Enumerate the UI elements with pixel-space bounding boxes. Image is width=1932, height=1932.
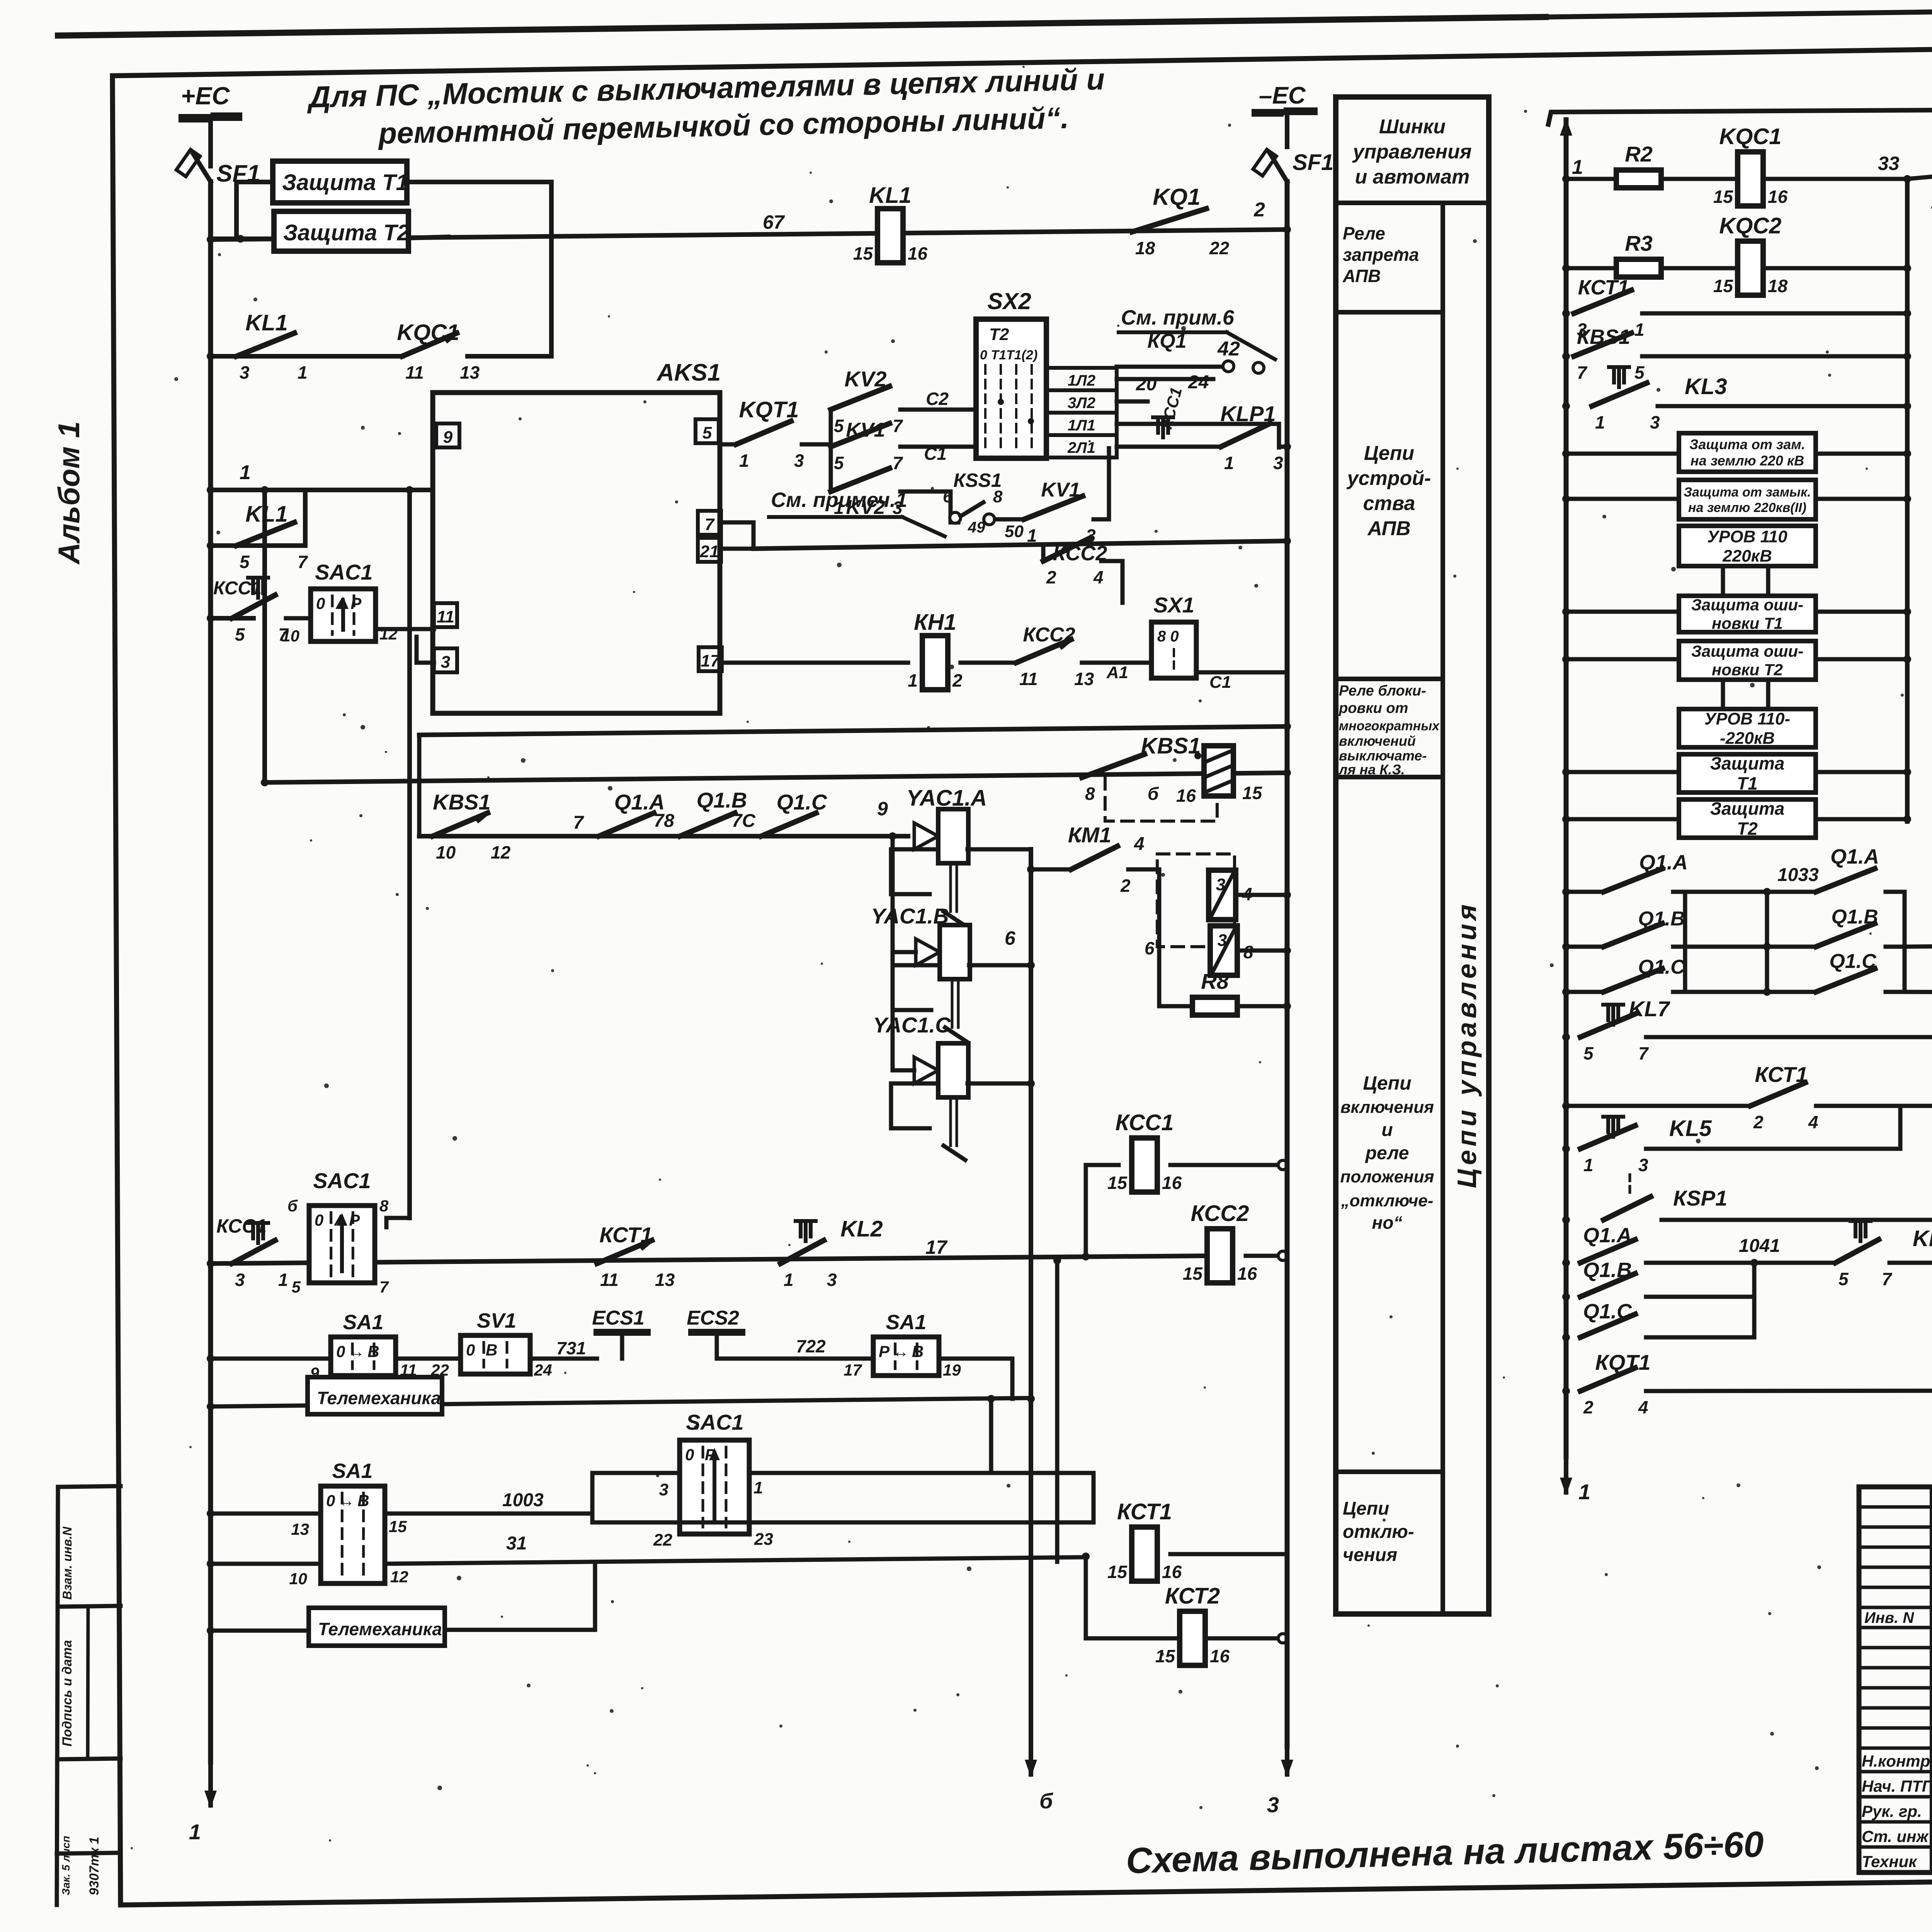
slashed rect KLP1 a: [1209, 870, 1236, 920]
svg-text:4: 4: [1808, 1112, 1818, 1132]
svg-text:16: 16: [1237, 1264, 1257, 1284]
switch SAC1 no1: [311, 589, 376, 641]
row SA1 SV1 ECS: [212, 1357, 331, 1361]
svg-text:и автомат: и автомат: [1355, 166, 1470, 188]
svg-text:22: 22: [1209, 238, 1230, 258]
svg-text:Защита Т2: Защита Т2: [283, 220, 410, 245]
svg-text:SA1: SA1: [343, 1311, 383, 1334]
svg-text:SAC1: SAC1: [315, 560, 372, 584]
sub-bus x4936: [1905, 179, 1910, 821]
svg-text:22: 22: [653, 1531, 672, 1549]
svg-text:7: 7: [893, 453, 903, 473]
svg-text:R3: R3: [1625, 231, 1653, 255]
svg-text:КСТ1: КСТ1: [1117, 1499, 1172, 1524]
svg-text:R8: R8: [1201, 969, 1229, 993]
svg-text:SX1: SX1: [1153, 593, 1194, 617]
svg-text:16: 16: [1162, 1562, 1182, 1582]
cell Cepi vklyucheniya: [1336, 1469, 1443, 1474]
svg-text:Q1.A: Q1.A: [1583, 1224, 1632, 1247]
svg-text:запрета: запрета: [1343, 245, 1419, 265]
svg-text:15: 15: [1713, 187, 1734, 207]
row R2 KQC1: [1562, 175, 1570, 183]
svg-text:0 Р: 0 Р: [685, 1446, 719, 1464]
svg-text:19: 19: [943, 1361, 961, 1379]
row KL5 contact 2973: [1562, 1145, 1570, 1153]
svg-text:Телемеханика: Телемеханика: [318, 1619, 442, 1639]
svg-text:КСТ2: КСТ2: [1165, 1583, 1220, 1609]
svg-text:10: 10: [436, 842, 456, 862]
switch SA1 no3 right: [873, 1337, 939, 1376]
svg-text:Q1.A: Q1.A: [1830, 845, 1879, 868]
svg-text:1: 1: [1224, 453, 1234, 473]
relay coil KH1 row: [722, 661, 908, 665]
svg-text:КQТ1: КQТ1: [1595, 1350, 1650, 1374]
contact KCC1 T row A: [232, 1240, 275, 1264]
svg-text:17: 17: [925, 1236, 948, 1258]
contact KCC1 small: [1153, 415, 1173, 419]
svg-text:SX2: SX2: [987, 288, 1031, 314]
svg-text:5: 5: [292, 1278, 301, 1296]
svg-text:3: 3: [235, 1270, 245, 1290]
svg-text:KL1: KL1: [245, 310, 288, 335]
wire YAC feeder vertical: [891, 836, 895, 1070]
row Q1C 2567: [1562, 988, 1570, 996]
wires SX2 outputs: [1117, 377, 1213, 381]
contact KM1: [1071, 846, 1117, 869]
svg-text:KV1: KV1: [846, 419, 885, 441]
wire KL1 row: [212, 354, 402, 359]
svg-text:6: 6: [1145, 938, 1155, 958]
wire AKS1 pin3 elbow: [417, 637, 434, 663]
relay coil KCT2: [1086, 1556, 1178, 1638]
page scan top edge: [58, 17, 1546, 36]
svg-text:отклю-: отклю-: [1343, 1522, 1414, 1542]
SX2 output boxes: [1046, 368, 1117, 390]
svg-text:15: 15: [853, 243, 874, 264]
title block small rows: [1859, 1505, 1932, 1509]
row KL7 contact 2684: [1562, 1033, 1570, 1041]
svg-text:0 Т1Т1(2): 0 Т1Т1(2): [980, 348, 1037, 362]
relay coil KQC1: [1738, 152, 1763, 206]
key ECS1: [597, 1329, 647, 1336]
Q1 group verticals: [1683, 892, 1687, 992]
svg-text:KBS1: KBS1: [1141, 733, 1201, 759]
svg-text:Подпись и дата: Подпись и дата: [60, 1640, 75, 1747]
svg-text:1: 1: [298, 362, 308, 383]
svg-text:Защита: Защита: [1710, 753, 1785, 774]
svg-text:KQC1: KQC1: [1719, 124, 1781, 149]
svg-text:42: 42: [1217, 338, 1240, 360]
middle column header: [1336, 201, 1489, 205]
box Защита Т2: [274, 211, 408, 251]
resistor R8: [1192, 997, 1237, 1015]
middle column outer box: [1336, 97, 1489, 1614]
svg-text:16: 16: [1162, 1173, 1182, 1193]
svg-text:1: 1: [753, 1478, 763, 1497]
svg-text:См. прим.6: См. прим.6: [1121, 306, 1235, 329]
contact KCC2 11-13: [1016, 639, 1071, 663]
svg-text:5: 5: [1583, 1043, 1594, 1063]
svg-text:Q1.C: Q1.C: [1638, 956, 1685, 978]
svg-text:КН1: КН1: [914, 610, 956, 635]
KV contact network: [829, 410, 833, 492]
svg-text:Телемеханика: Телемеханика: [317, 1388, 441, 1408]
svg-text:б: б: [1148, 784, 1159, 804]
svg-text:Цепи: Цепи: [1343, 1498, 1389, 1519]
protection box Защита оши-: [1679, 641, 1816, 680]
svg-text:7: 7: [893, 416, 903, 436]
protection box УРОВ 110: [1679, 526, 1816, 566]
svg-text:23: 23: [754, 1530, 773, 1549]
svg-text:SF1: SF1: [1293, 150, 1333, 175]
relay coil KCT1 bottom: [1132, 1527, 1157, 1581]
svg-text:3Л2: 3Л2: [1068, 395, 1095, 412]
svg-text:13: 13: [655, 1270, 675, 1290]
ground wire 67 line: [211, 230, 1287, 240]
row telemech2: [212, 1629, 309, 1633]
svg-text:18: 18: [1768, 276, 1788, 296]
svg-text:KQC1: KQC1: [397, 320, 459, 345]
block AKS1: [433, 393, 720, 713]
relay coil KCC2: [1207, 1229, 1233, 1283]
svg-text:положения: положения: [1340, 1167, 1434, 1186]
svg-text:33: 33: [1878, 153, 1900, 174]
svg-text:722: 722: [796, 1336, 826, 1356]
wire SAC1no2 out: [749, 1471, 1094, 1475]
svg-text:Реле: Реле: [1343, 223, 1385, 243]
svg-text:Взам. инв.N: Взам. инв.N: [60, 1526, 74, 1600]
svg-text:1003: 1003: [502, 1490, 544, 1510]
svg-text:Q1.B: Q1.B: [1583, 1259, 1632, 1282]
contact KV1 1-3: [1024, 496, 1083, 519]
svg-text:Т2: Т2: [989, 325, 1009, 344]
svg-text:ства: ства: [1363, 492, 1415, 515]
box Защита Т1: [273, 161, 407, 203]
svg-text:0↔В: 0↔В: [336, 1342, 383, 1361]
svg-text:3: 3: [794, 451, 804, 471]
box telemechanika 2: [309, 1608, 445, 1646]
svg-text:ЕСS2: ЕСS2: [687, 1307, 739, 1329]
protection box Защита: [1679, 799, 1816, 838]
brace under label: [1548, 110, 1932, 124]
svg-text:31: 31: [506, 1533, 527, 1554]
svg-text:2: 2: [1120, 876, 1131, 896]
svg-text:КСТ1: КСТ1: [599, 1223, 652, 1247]
breaker SF1 left: [176, 150, 200, 177]
contact KLP1 1-3: [1221, 423, 1270, 447]
svg-text:Т2: Т2: [1737, 819, 1758, 839]
svg-text:б: б: [287, 1197, 298, 1215]
svg-text:7: 7: [1577, 362, 1588, 383]
svg-text:на землю 220 кВ: на землю 220 кВ: [1690, 453, 1804, 469]
contact KQ1 42 open: [1109, 367, 1117, 367]
contact Q1.B row2164: [680, 813, 735, 836]
svg-text:KQ1: KQ1: [1153, 184, 1200, 210]
svg-text:управления: управления: [1352, 141, 1471, 163]
svg-text:15: 15: [1107, 1173, 1128, 1193]
svg-text:Защита оши-: Защита оши-: [1691, 642, 1803, 660]
svg-text:KQT1: KQT1: [739, 397, 799, 422]
svg-text:АПВ: АПВ: [1342, 266, 1381, 286]
contact Q1.C row2164: [761, 813, 816, 836]
wire SAC1no2 lower loop: [590, 1473, 595, 1522]
svg-text:КСС1: КСС1: [216, 1215, 267, 1237]
svg-text:22: 22: [430, 1361, 449, 1379]
svg-text:1Л2: 1Л2: [1068, 372, 1095, 389]
relay coil KL1: [878, 209, 903, 263]
svg-text:6: 6: [1005, 927, 1016, 949]
svg-text:Н.контр: Н.контр: [1862, 1752, 1930, 1770]
svg-text:2: 2: [1253, 199, 1265, 221]
svg-text:KL3: KL3: [1685, 374, 1727, 399]
svg-text:5: 5: [834, 416, 844, 436]
svg-text:КМ1: КМ1: [1068, 823, 1111, 847]
svg-text:Защита Т1: Защита Т1: [282, 170, 408, 195]
wire SX1 to bus: [1196, 670, 1287, 675]
svg-text:Q1.B: Q1.B: [697, 788, 747, 812]
bus 6 vertical: [1029, 849, 1033, 1756]
wire 1035 row: [1905, 943, 1932, 947]
svg-text:Р↔В: Р↔В: [879, 1342, 927, 1361]
svg-text:15: 15: [1713, 276, 1734, 296]
row KCT1 1039: [1562, 1102, 1570, 1110]
svg-text:включений: включений: [1339, 733, 1416, 749]
svg-text:KQC2: KQC2: [1719, 213, 1781, 238]
svg-text:KV2: KV2: [845, 367, 887, 391]
wire T1 elbow: [236, 182, 273, 237]
svg-text:0 АР: 0 АР: [316, 594, 364, 612]
svg-text:Инв. N: Инв. N: [1864, 1609, 1914, 1626]
svg-text:KV1: KV1: [1041, 479, 1080, 501]
svg-text:11: 11: [1019, 669, 1038, 689]
svg-text:9: 9: [443, 428, 453, 447]
svg-text:1: 1: [739, 451, 749, 471]
svg-text:КСС1: КСС1: [213, 578, 262, 599]
svg-text:Защита от замык.: Защита от замык.: [1684, 485, 1811, 500]
svg-text:КSP1: КSP1: [1673, 1186, 1727, 1210]
svg-text:15: 15: [1183, 1264, 1203, 1284]
svg-text:YAC1.B: YAC1.B: [871, 904, 949, 928]
svg-text:Q1.A: Q1.A: [1639, 851, 1688, 874]
svg-text:8: 8: [379, 1197, 389, 1215]
protection box Защита от зам.: [1679, 433, 1816, 472]
svg-text:7: 7: [573, 813, 584, 833]
svg-text:3: 3: [1218, 931, 1227, 950]
row Q1B 2450: [1562, 943, 1570, 951]
selector SX1: [1151, 622, 1196, 678]
stub box3 box4: [1721, 566, 1725, 596]
contact KQT1 1-3 from AKS1 pin5: [722, 442, 736, 447]
svg-text:5: 5: [1634, 362, 1645, 383]
protection box Защита: [1679, 754, 1816, 793]
row A wire KCT1 row: [212, 1256, 1207, 1264]
svg-text:7: 7: [298, 552, 308, 572]
box telemechanika 1: [308, 1377, 442, 1414]
resistor R2: [1616, 170, 1661, 188]
svg-text:9307тк 1: 9307тк 1: [87, 1837, 102, 1895]
wire KL7 coil row: [1905, 992, 1932, 993]
svg-text:13: 13: [460, 362, 480, 383]
svg-text:SAC1: SAC1: [313, 1168, 371, 1193]
svg-text:Q1.C: Q1.C: [777, 790, 828, 814]
svg-text:КSS1: КSS1: [953, 469, 1002, 491]
wire row1 to KBS1: [1907, 175, 1932, 179]
svg-text:+ЕС: +ЕС: [181, 82, 230, 110]
svg-text:KL2: KL2: [840, 1216, 883, 1242]
svg-text:реле: реле: [1365, 1143, 1409, 1163]
contact KCC1 T 5-7: [212, 616, 253, 621]
wire row KBS1 Q1 contacts 2164: [419, 834, 908, 838]
svg-text:включения: включения: [1340, 1098, 1434, 1117]
svg-text:3: 3: [827, 1270, 837, 1290]
svg-text:SA1: SA1: [332, 1459, 372, 1483]
wire T2 stubs: [212, 236, 274, 241]
svg-text:20: 20: [1136, 374, 1157, 395]
svg-text:5: 5: [235, 624, 245, 645]
row R3 KQC2: [1562, 264, 1570, 272]
svg-text:ля на К.З.: ля на К.З.: [1338, 762, 1405, 777]
wire T1 right to KQC1 row: [407, 182, 551, 356]
cell Cepi ustroistva APV: [1336, 677, 1443, 681]
svg-text:Шинки: Шинки: [1379, 116, 1446, 138]
svg-text:5: 5: [1838, 1269, 1849, 1289]
svg-text:8 0: 8 0: [1157, 628, 1179, 645]
stub box5 box6: [1721, 680, 1725, 709]
svg-text:А1: А1: [1106, 663, 1128, 682]
svg-text:3: 3: [1638, 1155, 1648, 1175]
svg-text:КСТ1: КСТ1: [1578, 276, 1629, 299]
svg-text:1: 1: [1583, 1155, 1594, 1175]
svg-text:3: 3: [659, 1480, 668, 1499]
svg-text:Защита: Защита: [1710, 799, 1785, 819]
svg-text:С2: С2: [926, 389, 949, 409]
svg-text:Техник: Техник: [1862, 1852, 1917, 1871]
title block signature rows: [1859, 1770, 1932, 1774]
bus1 right schematic: [1564, 121, 1568, 168]
svg-text:49: 49: [968, 519, 985, 536]
svg-text:УРОВ 110-: УРОВ 110-: [1704, 709, 1790, 728]
row KCT1 contact: [1562, 310, 1570, 317]
svg-text:1: 1: [908, 670, 918, 690]
svg-text:выключате-: выключате-: [1339, 748, 1427, 764]
bus6 bottom arrow: [1029, 1731, 1033, 1774]
svg-text:24: 24: [1188, 372, 1209, 393]
row KL3 contact: [1562, 402, 1570, 410]
selector SX2: [976, 319, 1046, 458]
long wire row 2025 KBS1: [265, 773, 1287, 782]
svg-text:KLP1: KLP1: [1220, 401, 1276, 426]
row Q1C2: [1562, 1333, 1570, 1341]
row 1003: [212, 1512, 321, 1516]
svg-text:1: 1: [1572, 156, 1583, 179]
svg-text:15: 15: [1155, 1646, 1176, 1666]
svg-text:4: 4: [1093, 567, 1104, 587]
wire node1 row: [207, 486, 214, 494]
svg-text:1: 1: [278, 1270, 288, 1290]
bus minus EC vertical: [1285, 182, 1290, 1747]
row KBS1 contact: [1562, 352, 1570, 360]
svg-text:SA1: SA1: [886, 1311, 926, 1334]
svg-text:2: 2: [952, 670, 963, 690]
switch SAC1 no2: [680, 1440, 749, 1534]
row 31 wire: [212, 1562, 321, 1566]
contact KL2 T rowA: [781, 1240, 824, 1264]
svg-text:См. примеч.1: См. примеч.1: [771, 488, 907, 512]
svg-text:15: 15: [1107, 1562, 1128, 1582]
svg-text:220кВ: 220кВ: [1722, 546, 1772, 565]
svg-text:12: 12: [390, 1568, 408, 1586]
bus +EC vertical: [208, 182, 213, 1762]
svg-text:YAC1.C: YAC1.C: [873, 1013, 951, 1037]
svg-text:0 АР: 0 АР: [315, 1211, 363, 1229]
svg-text:Альбом 1: Альбом 1: [52, 421, 86, 565]
title block outer: [1859, 1487, 1932, 1872]
svg-text:11: 11: [600, 1270, 619, 1290]
svg-text:11: 11: [437, 607, 454, 626]
title block left grid verticals: [1930, 1487, 1932, 1872]
svg-text:С1: С1: [1209, 673, 1231, 692]
svg-text:0↔В: 0↔В: [326, 1492, 372, 1510]
svg-text:1: 1: [1595, 412, 1605, 432]
wire KM1 row: [1027, 866, 1035, 873]
svg-text:КСС2: КСС2: [1191, 1201, 1249, 1226]
svg-text:15: 15: [389, 1517, 407, 1536]
svg-text:КСС1: КСС1: [1116, 1110, 1174, 1135]
svg-text:2: 2: [1753, 1112, 1764, 1132]
svg-text:КСТ1: КСТ1: [1755, 1062, 1808, 1087]
svg-text:15: 15: [1242, 783, 1263, 803]
protection box Защита оши-: [1679, 596, 1816, 632]
svg-text:SV1: SV1: [477, 1309, 516, 1332]
protection box УРОВ 110-: [1679, 709, 1816, 747]
svg-text:KBS1: KBS1: [433, 790, 490, 814]
svg-text:и: и: [1381, 1120, 1393, 1140]
key ECS2: [692, 1329, 742, 1336]
svg-text:9: 9: [877, 798, 888, 820]
row KSP1 1043: [1562, 1216, 1570, 1224]
contact KSS1: [951, 520, 958, 525]
svg-text:9: 9: [310, 1364, 320, 1382]
svg-text:5: 5: [240, 552, 250, 572]
svg-text:КBS1: КBS1: [1577, 325, 1630, 349]
svg-text:Цепи: Цепи: [1363, 1072, 1411, 1094]
contact KL1 3-1: [236, 333, 294, 356]
svg-text:АПВ: АПВ: [1367, 517, 1410, 540]
svg-text:2: 2: [1583, 1397, 1594, 1417]
svg-text:7: 7: [705, 515, 715, 534]
svg-text:7: 7: [379, 1278, 389, 1296]
svg-text:731: 731: [556, 1338, 586, 1358]
svg-text:13: 13: [291, 1520, 309, 1538]
contact KCT1 11-13 rowA: [597, 1240, 652, 1264]
svg-text:–ЕС: –ЕС: [1259, 82, 1306, 109]
slashed rect KLP1 b: [1210, 926, 1237, 975]
wire SAC1 to vertical x1060: [407, 490, 412, 1218]
svg-text:новки Т1: новки Т1: [1712, 614, 1783, 633]
svg-text:3: 3: [240, 362, 250, 383]
svg-text:Защита от зам.: Защита от зам.: [1689, 437, 1805, 452]
contact Q1.A row2164: [599, 813, 654, 836]
svg-text:11: 11: [400, 1361, 417, 1379]
svg-text:SAC1: SAC1: [686, 1410, 743, 1434]
svg-text:11: 11: [405, 362, 424, 383]
bus3 bottom arrow: [1285, 1731, 1289, 1774]
svg-text:3: 3: [1267, 1793, 1279, 1817]
svg-text:17: 17: [701, 651, 721, 670]
svg-text:Нач. ПТП: Нач. ПТП: [1862, 1777, 1932, 1795]
svg-text:3: 3: [441, 653, 450, 672]
svg-text:но“: но“: [1372, 1213, 1403, 1233]
